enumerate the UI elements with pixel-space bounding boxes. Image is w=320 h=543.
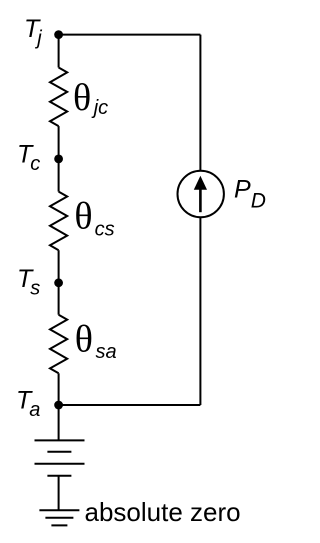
battery (absolute-zero reference source) [35, 440, 85, 475]
node Ts (junction dot) [54, 278, 63, 287]
wire right rail lower (current source to bottom) [199, 218, 201, 406]
label Ta [16, 386, 40, 421]
wire Tc to resistor R2 [58, 159, 60, 192]
wire R1 to Tc [58, 126, 60, 159]
ground [39, 510, 79, 525]
resistor R3 theta_sa (zigzag) [50, 315, 67, 374]
label Tc [17, 141, 40, 176]
label theta_cs (value of R2) [74, 196, 114, 241]
node Tj (junction dot) [54, 30, 63, 39]
current source PD (circle with up arrow) [178, 171, 224, 217]
label theta_jc (value of R1) [73, 77, 108, 119]
label PD (current source value) [234, 176, 266, 213]
label Ts [17, 265, 40, 300]
wire top horizontal (Tj to right rail) [59, 34, 201, 36]
wire Ts to resistor R3 [58, 283, 60, 315]
label absolute zero [85, 497, 241, 527]
wire Ta to battery [58, 405, 60, 440]
wire Tj to resistor R1 [58, 35, 60, 68]
wire R2 to Ts [58, 250, 60, 283]
node Tc (junction dot) [54, 155, 63, 164]
wire right rail upper (top to current source) [199, 35, 201, 171]
label Tj [24, 15, 42, 50]
wire battery to ground [58, 476, 60, 510]
label theta_sa (value of R3) [75, 319, 117, 364]
svg-text:absolute zero: absolute zero [85, 497, 241, 527]
wire R3 to Ta [58, 373, 60, 405]
wire bottom horizontal (Ta to right rail) [59, 404, 201, 406]
resistor R1 theta_jc (zigzag) [50, 68, 67, 127]
node Ta (junction dot) [54, 401, 63, 410]
resistor R2 theta_cs (zigzag) [50, 192, 67, 251]
